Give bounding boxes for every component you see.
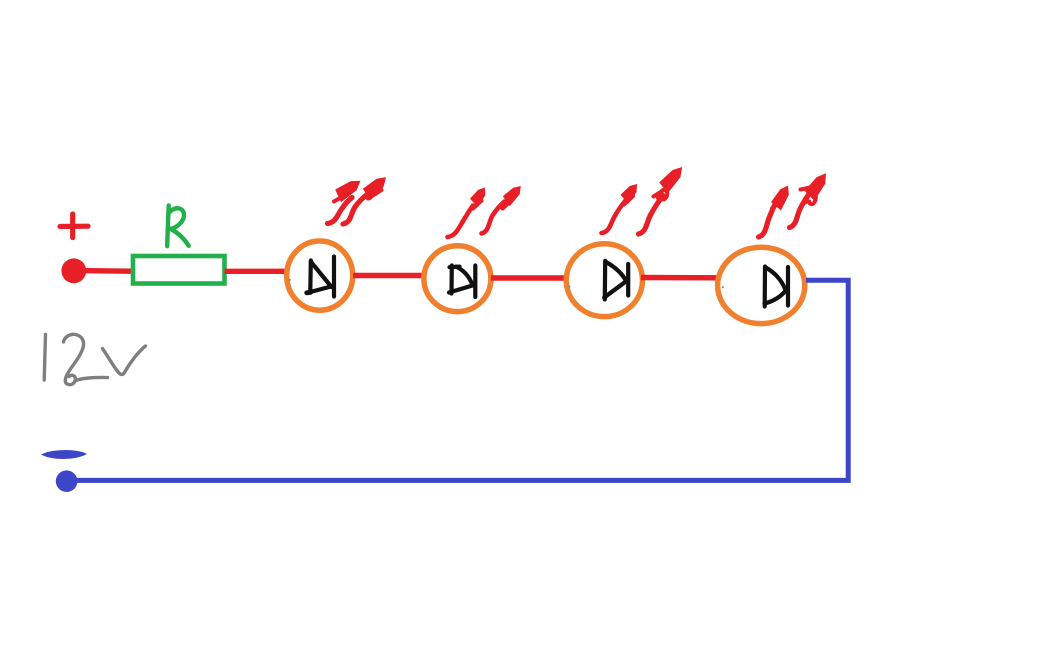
wire LED D1 to LED D2 (353, 273, 422, 278)
node negative terminal dot (56, 470, 78, 492)
LED D4 circle (718, 247, 805, 323)
label R of resistor (167, 206, 189, 247)
node positive terminal dot (61, 258, 86, 283)
diode symbol inside D4 (765, 267, 789, 307)
wire resistor to LED D1 (225, 269, 288, 274)
diode symbol inside D2 (449, 266, 475, 298)
light emission D1 arrow b (343, 177, 386, 224)
stray speck near LED D4 (722, 286, 724, 288)
positive terminal plus symbol (60, 214, 88, 238)
stray speck near LED D3 (568, 286, 570, 288)
wire LED D4 to negative terminal (blue return wire) (74, 280, 848, 480)
stray speck near LED D1 (289, 279, 291, 281)
wire positive dot to resistor R (80, 268, 133, 274)
diode symbol inside D3 (604, 261, 628, 300)
light emission D2 arrow b (482, 186, 521, 234)
negative terminal minus symbol (43, 451, 86, 458)
LED D2 circle (424, 246, 491, 312)
resistor R (133, 256, 225, 284)
wire LED D3 to LED D4 (641, 275, 722, 281)
wire LED D2 to LED D3 (491, 275, 567, 280)
diode symbol inside D1 (307, 257, 334, 297)
light emission D4 arrow b (790, 173, 827, 227)
light emission D2 arrow a (448, 188, 486, 238)
light emission D1 arrow a (328, 181, 361, 224)
LED D1 circle (287, 241, 353, 310)
light emission D3 arrow a (602, 184, 638, 233)
label 12v supply voltage (44, 334, 145, 384)
light emission D3 arrow b (639, 167, 683, 234)
light emission D4 arrow a (759, 186, 789, 238)
LED D3 circle (566, 244, 642, 317)
